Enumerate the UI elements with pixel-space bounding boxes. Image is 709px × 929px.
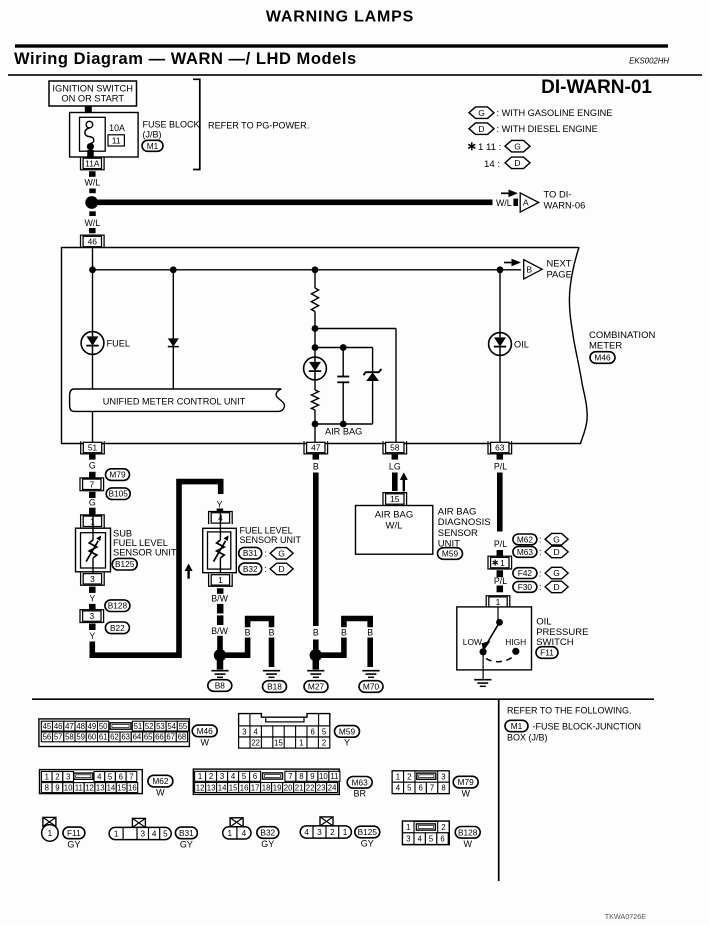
svg-text:D: D xyxy=(279,564,285,574)
svg-text:58: 58 xyxy=(65,733,74,742)
svg-text:54: 54 xyxy=(167,722,176,731)
svg-text:M59: M59 xyxy=(442,548,459,558)
junction node fuel branch xyxy=(89,266,96,273)
wire B/W stub xyxy=(217,588,224,594)
svg-text:W: W xyxy=(200,738,209,748)
star 1 label xyxy=(493,558,506,568)
wire fuel branch lower xyxy=(92,354,94,443)
fuse block junction text xyxy=(507,721,641,742)
svg-text:B: B xyxy=(313,462,319,472)
svg-text:REFER TO PG-POWER.: REFER TO PG-POWER. xyxy=(208,120,309,130)
connector B32 oval xyxy=(239,563,262,575)
svg-text:6: 6 xyxy=(311,728,315,737)
connector F42 oval xyxy=(513,568,537,579)
svg-text:3: 3 xyxy=(441,772,445,781)
B32 keying tab xyxy=(230,818,243,827)
svg-text:60: 60 xyxy=(88,733,97,742)
svg-text:M1: M1 xyxy=(147,141,159,151)
svg-text:9: 9 xyxy=(55,783,59,792)
bus W/L to page arrow A xyxy=(96,200,493,206)
svg-text:G: G xyxy=(478,108,485,118)
connector plate M59 xyxy=(239,714,330,749)
svg-text:12: 12 xyxy=(196,783,205,792)
svg-text:Y: Y xyxy=(89,594,95,604)
svg-text:5: 5 xyxy=(242,772,247,781)
wire Y dash xyxy=(89,604,96,610)
junction node M27 xyxy=(310,649,322,661)
wire W/L dash below junction xyxy=(89,211,96,216)
svg-text:FUSE BLOCK: FUSE BLOCK xyxy=(143,119,200,129)
svg-text:3: 3 xyxy=(66,772,70,781)
parallel top rail xyxy=(315,347,373,349)
svg-text:G: G xyxy=(514,141,521,151)
legend 14 D hexagon xyxy=(505,157,530,169)
wire diode branch xyxy=(172,270,174,389)
svg-text:B: B xyxy=(313,628,319,638)
top rule xyxy=(15,44,668,47)
svg-text:B128: B128 xyxy=(458,827,478,837)
svg-text:F11: F11 xyxy=(67,828,81,838)
B125 plate oval xyxy=(355,826,380,838)
svg-text:2: 2 xyxy=(407,772,411,781)
ignition switch box xyxy=(49,81,137,106)
M1 footer oval xyxy=(505,720,528,731)
svg-text:4: 4 xyxy=(242,829,247,838)
B31 G hexagon xyxy=(270,548,293,560)
svg-text:1: 1 xyxy=(45,772,49,781)
svg-text:D: D xyxy=(514,158,520,168)
svg-text:15: 15 xyxy=(390,494,400,504)
connector 15 xyxy=(383,493,407,506)
connector 1 fuel sensor bottom xyxy=(209,574,233,587)
junction parallel bottom left xyxy=(312,421,319,428)
connector 7 inline xyxy=(80,478,104,491)
fuel sensor inner box xyxy=(208,532,231,569)
fuel level sensor unit box xyxy=(203,528,237,572)
svg-text:67: 67 xyxy=(166,733,175,742)
svg-text:46: 46 xyxy=(54,722,63,731)
svg-text:16: 16 xyxy=(128,783,137,792)
svg-text:2: 2 xyxy=(209,772,213,781)
to DI-WARN-06 text xyxy=(544,189,586,211)
svg-text:G: G xyxy=(89,498,96,508)
legend 11 G hexagon xyxy=(505,140,530,152)
svg-text:UNIFIED METER CONTROL UNIT: UNIFIED METER CONTROL UNIT xyxy=(103,396,246,406)
svg-text:G: G xyxy=(89,460,96,470)
svg-text:24: 24 xyxy=(328,783,337,792)
svg-text:2: 2 xyxy=(55,772,59,781)
svg-text:21: 21 xyxy=(295,783,304,792)
M79 plate oval xyxy=(453,776,478,788)
sub unit variable resistor xyxy=(86,517,101,574)
page arrow B xyxy=(524,260,543,279)
ground oil switch xyxy=(474,680,491,687)
wire airbag branch top xyxy=(314,270,316,288)
wire fuel branch upper xyxy=(92,270,94,332)
svg-text:1: 1 xyxy=(48,829,53,838)
capacitor leads xyxy=(342,348,344,377)
svg-text:M46: M46 xyxy=(197,726,214,736)
svg-text:6: 6 xyxy=(419,784,423,793)
connector M62 oval xyxy=(513,534,537,545)
connector plate B31 xyxy=(109,827,171,839)
svg-text:11: 11 xyxy=(112,136,121,146)
direction arrow on route xyxy=(185,564,193,579)
diode xyxy=(168,338,179,346)
svg-text:17: 17 xyxy=(251,783,260,792)
svg-text:13: 13 xyxy=(207,783,216,792)
svg-text:P/L: P/L xyxy=(494,539,507,549)
wire B long xyxy=(313,473,319,627)
connector plate M46 xyxy=(39,719,190,747)
oil pressure switch label xyxy=(536,617,588,649)
svg-text:EKS002HH: EKS002HH xyxy=(629,57,669,66)
svg-text:4: 4 xyxy=(231,772,236,781)
wire P/L stub below 63 xyxy=(497,454,504,460)
connector M27 oval xyxy=(304,681,328,693)
stub below B8 dot xyxy=(217,661,224,670)
svg-text:B128: B128 xyxy=(108,601,128,611)
svg-text:BOX (J/B): BOX (J/B) xyxy=(507,733,548,743)
svg-text:16: 16 xyxy=(240,783,249,792)
svg-text:11A: 11A xyxy=(85,158,100,168)
svg-text:10: 10 xyxy=(64,783,73,792)
svg-text:M1: M1 xyxy=(511,721,523,731)
air bag W/L box xyxy=(356,506,433,555)
svg-text:56: 56 xyxy=(43,733,52,742)
svg-text:1: 1 xyxy=(228,829,233,838)
wire oil branch upper xyxy=(499,270,501,333)
svg-text:23: 23 xyxy=(317,783,326,792)
svg-text:20: 20 xyxy=(284,783,293,792)
svg-text:5: 5 xyxy=(108,772,113,781)
LOW contact xyxy=(480,648,487,655)
svg-text:D: D xyxy=(554,547,560,557)
connector M46 oval xyxy=(590,352,615,364)
wire node to 58 branch xyxy=(315,328,396,330)
svg-text:B32: B32 xyxy=(243,564,258,574)
airbag lamp xyxy=(304,357,327,380)
air bag W/L text xyxy=(375,510,414,532)
M62 plate oval xyxy=(148,775,173,787)
svg-text:GY: GY xyxy=(67,840,80,850)
wire LG solid xyxy=(392,473,398,492)
svg-text:5: 5 xyxy=(429,834,434,843)
svg-text:OIL: OIL xyxy=(514,340,529,350)
ground bus to M70 top xyxy=(344,619,370,628)
svg-text:51: 51 xyxy=(88,443,98,453)
legend G hexagon xyxy=(469,107,494,119)
svg-text:SENSOR: SENSOR xyxy=(438,528,478,539)
svg-text:B/W: B/W xyxy=(211,626,228,636)
zener leads xyxy=(372,348,374,373)
svg-text:5: 5 xyxy=(163,829,168,838)
svg-text:3: 3 xyxy=(220,772,224,781)
svg-text:W/L: W/L xyxy=(84,178,100,188)
svg-text:15: 15 xyxy=(274,739,283,748)
svg-text:5: 5 xyxy=(322,728,327,737)
svg-text:6: 6 xyxy=(440,834,444,843)
heading underline xyxy=(8,74,702,76)
svg-text:PAGE: PAGE xyxy=(547,269,572,280)
svg-text:HIGH: HIGH xyxy=(505,637,526,647)
B32 plate oval xyxy=(257,827,279,839)
svg-text:A: A xyxy=(523,198,529,208)
connector 4 fuel sensor xyxy=(209,512,233,525)
svg-text:11: 11 xyxy=(75,783,83,792)
svg-text:REFER TO THE FOLLOWING.: REFER TO THE FOLLOWING. xyxy=(507,706,632,716)
svg-text:4: 4 xyxy=(418,834,423,843)
svg-text:7: 7 xyxy=(430,784,434,793)
svg-text:TKWA0726E: TKWA0726E xyxy=(605,912,646,921)
svg-text:B/W: B/W xyxy=(211,594,228,604)
connector plate M63 xyxy=(193,769,340,794)
wire LG stub below 58 xyxy=(392,454,399,460)
svg-text:62: 62 xyxy=(110,733,119,742)
svg-text:F11: F11 xyxy=(540,647,554,657)
connector M63 oval xyxy=(513,547,537,558)
svg-text:10: 10 xyxy=(319,772,328,781)
connector B105 oval xyxy=(106,488,130,500)
connector plate B125 xyxy=(300,826,351,838)
svg-text:M70: M70 xyxy=(363,681,380,691)
connector 3 below sub unit xyxy=(81,573,105,586)
svg-text::: : xyxy=(264,549,267,559)
svg-text:13: 13 xyxy=(96,783,105,792)
svg-text:22: 22 xyxy=(306,783,315,792)
svg-text:63: 63 xyxy=(495,443,505,453)
svg-text:M79: M79 xyxy=(109,470,126,480)
svg-text:4: 4 xyxy=(396,784,401,793)
ground M27 xyxy=(307,671,324,678)
svg-text:8: 8 xyxy=(45,783,49,792)
ground bus to M70 lower right xyxy=(367,638,373,668)
svg-text:FUEL LEVEL: FUEL LEVEL xyxy=(113,538,168,548)
svg-text:51: 51 xyxy=(134,722,143,731)
svg-text:65: 65 xyxy=(144,733,153,742)
M59 plate oval xyxy=(335,726,360,738)
fuel lamp xyxy=(81,332,104,355)
svg-text:7: 7 xyxy=(89,479,94,489)
ground bus to B18 top xyxy=(248,619,272,628)
oil pressure switch box xyxy=(457,607,532,670)
ground B8 xyxy=(211,671,228,678)
svg-text:47: 47 xyxy=(311,443,321,453)
svg-text:LOW: LOW xyxy=(463,637,482,647)
svg-text:: WITH DIESEL ENGINE: : WITH DIESEL ENGINE xyxy=(497,124,598,134)
unified meter control unit banner xyxy=(70,389,285,411)
wire G dash 2 xyxy=(89,492,96,498)
mini arrow before A xyxy=(501,190,518,198)
svg-text:1 11 :: 1 11 : xyxy=(478,142,501,153)
svg-text:1: 1 xyxy=(343,828,348,837)
svg-text:68: 68 xyxy=(178,733,187,742)
wire Y stub 2 xyxy=(89,624,96,630)
connector M70 oval xyxy=(359,681,383,693)
parallel bottom rail xyxy=(315,423,373,425)
svg-text:METER: METER xyxy=(589,341,622,352)
connector M79 oval xyxy=(106,469,130,481)
svg-text:1: 1 xyxy=(396,772,400,781)
footer divider xyxy=(498,699,500,881)
svg-text:FUEL: FUEL xyxy=(107,339,131,349)
M46 plate oval xyxy=(192,725,217,737)
svg-text:B105: B105 xyxy=(109,489,129,499)
svg-text:9: 9 xyxy=(310,772,314,781)
fuse symbol xyxy=(85,121,94,150)
svg-text:4: 4 xyxy=(152,829,157,838)
svg-text:58: 58 xyxy=(390,443,400,453)
svg-text:3: 3 xyxy=(90,574,95,584)
svg-text:B: B xyxy=(341,628,347,638)
svg-text:WARNING LAMPS: WARNING LAMPS xyxy=(266,9,414,26)
svg-text:1: 1 xyxy=(500,558,505,568)
svg-text:W: W xyxy=(463,839,472,849)
svg-text:1: 1 xyxy=(406,823,410,832)
svg-text:1: 1 xyxy=(496,597,501,607)
M63 plate oval xyxy=(347,777,372,789)
svg-text:1: 1 xyxy=(198,772,202,781)
svg-text:66: 66 xyxy=(155,733,164,742)
wire to node xyxy=(314,312,316,348)
bus end square xyxy=(513,199,518,206)
connector plate B32 xyxy=(223,827,251,839)
fuse block box xyxy=(70,113,139,158)
bracket xyxy=(193,79,200,169)
F42 G hexagon xyxy=(545,567,568,579)
svg-text:(J/B): (J/B) xyxy=(143,130,162,140)
junction cap bottom xyxy=(340,421,347,428)
svg-text:M79: M79 xyxy=(458,777,475,787)
svg-text:3: 3 xyxy=(89,611,94,621)
svg-text:47: 47 xyxy=(65,722,74,731)
stub fuse to 11A xyxy=(87,150,94,158)
svg-text:G: G xyxy=(553,534,560,544)
air bag diagnosis sensor unit label xyxy=(438,507,491,550)
svg-text:12: 12 xyxy=(85,783,94,792)
svg-text:M63: M63 xyxy=(352,777,369,787)
HIGH contact xyxy=(512,648,519,655)
svg-text:46: 46 xyxy=(88,237,98,247)
ground B18 xyxy=(263,671,280,678)
connector plate M62 xyxy=(40,770,143,794)
svg-text:BR: BR xyxy=(353,789,366,799)
resistor airbag bottom xyxy=(311,390,318,410)
svg-text:COMBINATION: COMBINATION xyxy=(589,330,655,341)
B31 keying tab xyxy=(132,818,145,827)
wire W/L stub below 11A xyxy=(89,171,96,177)
wire W/L dash xyxy=(89,189,96,194)
ground bus to B18 lower right xyxy=(269,638,275,668)
svg-text:W: W xyxy=(156,788,165,798)
svg-text:7: 7 xyxy=(288,772,292,781)
svg-text:M62: M62 xyxy=(517,534,534,544)
internal bus xyxy=(93,269,522,271)
connector M1 oval xyxy=(142,140,163,151)
connector 47 xyxy=(304,441,328,454)
svg-text:D: D xyxy=(478,124,484,134)
svg-text:AIR BAG: AIR BAG xyxy=(325,427,362,437)
wire P/L stub 3 xyxy=(497,570,504,577)
ground bus to M70 lower left xyxy=(321,638,344,656)
thick route wire to fuel sensor xyxy=(92,482,220,656)
fuse block label xyxy=(143,119,200,139)
B31 plate oval xyxy=(175,827,197,839)
wire G stub below 51 xyxy=(89,454,96,460)
svg-text:P/L: P/L xyxy=(494,462,507,472)
resistor airbag top xyxy=(311,288,318,312)
junction node W/L xyxy=(85,196,98,209)
svg-text:G: G xyxy=(278,548,285,558)
svg-text::: : xyxy=(539,568,542,578)
connector 63 xyxy=(488,441,512,454)
connector 51 xyxy=(81,441,105,454)
fuel sensor variable resistor xyxy=(214,513,229,573)
svg-text:SUB: SUB xyxy=(113,529,132,539)
svg-text:TO DI-: TO DI- xyxy=(544,189,572,200)
switch common wire xyxy=(497,607,499,622)
F30 D hexagon xyxy=(545,581,568,593)
connector B125 oval xyxy=(112,558,137,570)
svg-text:6: 6 xyxy=(253,772,257,781)
svg-text:ON OR START: ON OR START xyxy=(61,94,124,104)
svg-text:5: 5 xyxy=(407,784,412,793)
junction node diode branch xyxy=(170,266,177,273)
svg-text:P/L: P/L xyxy=(494,576,507,586)
wire P/L solid xyxy=(497,473,503,532)
svg-text:B31: B31 xyxy=(179,828,194,838)
svg-text:SENSOR UNIT: SENSOR UNIT xyxy=(113,548,177,558)
wire airbag to 47 xyxy=(314,424,316,444)
connector F30 oval xyxy=(513,582,537,593)
svg-text:53: 53 xyxy=(156,722,165,731)
svg-text:59: 59 xyxy=(76,733,85,742)
F11 plate oval xyxy=(63,827,85,839)
oil lamp xyxy=(489,333,512,356)
svg-text:GY: GY xyxy=(261,839,274,849)
connector 1 oil switch xyxy=(486,596,510,609)
svg-text::: : xyxy=(539,535,542,545)
svg-text::: : xyxy=(539,582,542,592)
svg-text:B: B xyxy=(245,628,251,638)
junction node airbag mid xyxy=(312,325,319,332)
svg-text:52: 52 xyxy=(145,722,154,731)
svg-text:3: 3 xyxy=(317,828,322,837)
connector B128 oval xyxy=(105,600,130,612)
connector plate M79 xyxy=(392,771,449,794)
svg-text:M59: M59 xyxy=(339,726,356,736)
svg-text:W/L: W/L xyxy=(386,521,403,532)
connector 1 sub unit xyxy=(81,515,105,528)
wire resistor to bottom rail xyxy=(314,410,316,424)
connector B8 oval xyxy=(208,680,232,692)
junction node airbag branch xyxy=(312,266,319,273)
svg-text:11: 11 xyxy=(330,772,338,781)
svg-text:63: 63 xyxy=(121,733,130,742)
svg-text:M27: M27 xyxy=(308,681,325,691)
connector 3 inline xyxy=(80,610,104,623)
svg-text:GY: GY xyxy=(361,839,374,849)
wire B/W solid xyxy=(217,636,223,650)
svg-text:F42: F42 xyxy=(518,568,533,578)
svg-text:55: 55 xyxy=(179,722,188,731)
wire P/L stub 4 xyxy=(497,586,504,593)
svg-text:W/L: W/L xyxy=(496,198,512,208)
sub unit inner box xyxy=(81,533,106,568)
svg-text:DIAGNOSIS: DIAGNOSIS xyxy=(438,517,491,528)
svg-text:14: 14 xyxy=(218,783,227,792)
wire G stub 2 xyxy=(89,508,96,515)
